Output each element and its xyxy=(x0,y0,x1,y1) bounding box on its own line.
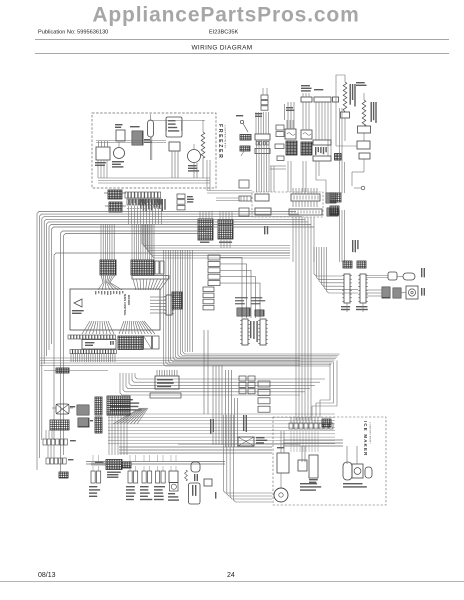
tall connector block A xyxy=(95,397,102,415)
small connector block D xyxy=(59,472,68,478)
heater R1 lead xyxy=(336,75,345,146)
freezer exit wires to junction xyxy=(207,190,252,192)
freezer harness connector block lower xyxy=(109,202,122,212)
relay K2 label xyxy=(314,89,323,90)
junction header J2 xyxy=(291,194,320,201)
thermal fuse box xyxy=(359,153,370,159)
svg-text:EI23BC35K: EI23BC35K xyxy=(209,30,238,36)
defrost limit switch xyxy=(169,142,180,151)
aux small box B xyxy=(277,156,284,161)
heater top labels xyxy=(356,82,365,83)
board right connector hatch xyxy=(172,292,182,309)
cluster drop wires xyxy=(287,161,289,192)
big harness connector right xyxy=(107,396,130,415)
wire fuse down xyxy=(363,159,365,172)
harness bends to water valve xyxy=(314,247,342,276)
defrost heater resistor R1 zigzag xyxy=(343,82,347,112)
compressor start relay box xyxy=(285,129,296,139)
cluster extra verticals xyxy=(286,120,288,129)
svg-text:WIRING DIAGRAM: WIRING DIAGRAM xyxy=(192,45,253,52)
wide connector strip B xyxy=(43,439,46,445)
water valve wires xyxy=(366,275,388,277)
heater R2 lead xyxy=(363,93,365,100)
staircase turns down to ice maker xyxy=(320,364,330,418)
connector grid CN2 xyxy=(218,220,233,239)
connector CN7 column xyxy=(261,95,268,99)
connector CN7 header lower xyxy=(255,149,270,154)
right harness down to valve strips xyxy=(339,210,341,262)
connector column CN11 xyxy=(203,287,214,292)
junction hatch right B xyxy=(327,208,338,216)
ice maker mold heater xyxy=(352,464,363,478)
wires below big connector xyxy=(108,415,110,455)
dispenser UI board box xyxy=(155,376,179,389)
svg-text:08/13: 08/13 xyxy=(38,572,56,579)
start relay text block xyxy=(286,141,297,155)
wires staircase to bottom bundle xyxy=(225,370,227,447)
connector column CN10 xyxy=(208,255,220,260)
freezer harness pin strip row2 xyxy=(127,199,129,205)
left harness corner bundle B xyxy=(61,231,207,472)
freezer defrost transformer xyxy=(132,131,143,145)
water tube heater hatch B xyxy=(357,261,366,268)
bottom harness dense connector xyxy=(106,460,122,470)
board connector block A xyxy=(100,260,116,275)
vertical label A xyxy=(210,419,211,434)
ice maker left module xyxy=(277,453,289,473)
board connector cells B2 xyxy=(155,261,159,274)
auger labels xyxy=(421,268,422,277)
svg-text:ICE MAKER: ICE MAKER xyxy=(363,421,368,456)
dispenser connector 2x3 xyxy=(239,376,246,381)
board pin marks top xyxy=(95,291,96,295)
board bottom dense block xyxy=(118,336,143,350)
svg-text:MAIN CONTROL: MAIN CONTROL xyxy=(123,294,127,316)
fan-out board bottom A xyxy=(82,321,90,334)
dispenser connector strip xyxy=(166,295,172,315)
right mid link wires xyxy=(336,145,357,147)
header rule upper xyxy=(35,39,449,41)
left harness corner bundle A extra xyxy=(49,225,311,351)
left bus verticals to strips xyxy=(45,430,47,439)
CN7 mid cells xyxy=(256,142,258,146)
power head strip labels xyxy=(250,321,251,338)
water valve body capsule xyxy=(403,273,415,280)
drain heater R2 zigzag xyxy=(362,100,366,126)
dispenser strip wires xyxy=(150,296,166,298)
wide connector strip C xyxy=(46,458,49,464)
sensor hatch block A xyxy=(330,193,341,202)
resistor squiggle bottom xyxy=(185,470,188,481)
evaporator thermistor symbol xyxy=(240,120,243,123)
freezer light lamp xyxy=(148,120,154,137)
board bottom aux boxes xyxy=(144,336,152,349)
condenser fan relay box xyxy=(357,141,370,149)
junction interface dashed box xyxy=(252,192,323,217)
UI board pins xyxy=(156,370,158,376)
bowtie fan A xyxy=(101,275,103,283)
ice maker internal wires xyxy=(290,431,292,452)
dispenser label block xyxy=(110,399,133,400)
main bus below board xyxy=(40,357,300,359)
connector grid CN1 xyxy=(198,219,213,240)
svg-text:FREEZER: FREEZER xyxy=(217,124,223,159)
evaporator fan motor EF xyxy=(188,150,201,163)
door switch S3 xyxy=(156,471,160,483)
wire bundle into board connector A xyxy=(100,224,102,260)
board connector block B xyxy=(131,260,154,275)
wide connector strip A xyxy=(50,420,69,430)
board connector bar B xyxy=(132,276,169,280)
dispenser bar xyxy=(150,393,181,398)
evaporator thermistor symbol 2 xyxy=(240,146,250,151)
junction area vertical label xyxy=(264,226,265,234)
harness staircase lower band xyxy=(120,373,300,395)
defrost heater element xyxy=(201,132,205,158)
freezer harness label columns xyxy=(140,199,141,208)
water valve connector strip B xyxy=(360,274,366,303)
ice maker motor capsule xyxy=(343,462,352,480)
freezer fan motor FF xyxy=(114,148,125,159)
heater R1 label xyxy=(350,84,351,105)
wire bundle into CN1 CN2 xyxy=(199,211,201,219)
wire drops from freezer connector xyxy=(128,206,130,224)
connector CN7 labels xyxy=(255,113,262,114)
svg-text:24: 24 xyxy=(227,572,235,579)
ice maker module A xyxy=(298,460,307,471)
connector hatch square A xyxy=(77,405,89,415)
run relay text block xyxy=(301,142,312,155)
center vertical harness below junction xyxy=(292,217,294,262)
water valve connector strip A xyxy=(344,274,350,303)
fan-out board bottom B xyxy=(119,321,124,334)
wires center to bottom xyxy=(212,365,214,445)
svg-text:AppliancePartsPros.com: AppliancePartsPros.com xyxy=(92,3,359,26)
capsule component mid bottom xyxy=(191,462,200,472)
power head strip A xyxy=(242,319,248,345)
dispenser connector column right xyxy=(258,381,270,387)
plug connector with cross xyxy=(56,404,69,414)
header rule lower xyxy=(35,53,449,55)
freezer harness pin strip row1 xyxy=(125,192,128,198)
svg-text:BOARD: BOARD xyxy=(127,295,131,305)
board bottom strip1 xyxy=(68,335,70,339)
ice maker top header xyxy=(289,423,293,429)
power head strip B xyxy=(260,319,266,345)
junction header J3 xyxy=(255,208,271,215)
sensor hatch block B xyxy=(330,206,339,215)
connector hatch square B xyxy=(78,418,89,427)
freezer compartment dashed enclosure xyxy=(92,113,216,188)
door switch S2 xyxy=(142,471,146,483)
light switch S4 xyxy=(169,471,178,483)
wire bundle K1 down xyxy=(287,102,289,129)
terminal X block xyxy=(335,154,342,161)
left column labels xyxy=(70,406,75,407)
board bottom relay box xyxy=(82,340,116,350)
bottom bus lines xyxy=(119,446,272,448)
compressor run relay box xyxy=(301,130,312,139)
buzzer symbol on board xyxy=(74,299,82,307)
board right harness bundle xyxy=(163,250,165,352)
main control board outline xyxy=(70,289,160,330)
freezer harness connector block upper xyxy=(108,190,122,199)
relay K2 header xyxy=(314,97,331,102)
overload text hatch xyxy=(315,147,316,155)
mid horizontal bus under grids xyxy=(142,224,290,246)
junction hatch right A xyxy=(326,193,336,203)
connector CN7 header xyxy=(255,134,270,140)
door switch S0 xyxy=(91,471,95,483)
relay K1 header xyxy=(301,97,312,102)
freezer thermistor xyxy=(116,130,125,141)
svg-text:COMPARTMENT: COMPARTMENT xyxy=(224,125,227,149)
power head label text xyxy=(235,297,248,298)
left harness corner bundle A xyxy=(37,212,296,471)
valve strip bottom labels xyxy=(341,306,350,307)
wire bundle K2 down xyxy=(315,102,317,140)
defrost termination thermostat block xyxy=(166,117,182,137)
ice maker thermostat capsule xyxy=(365,467,372,478)
freezer harness dashed mark row xyxy=(127,208,163,210)
compressor motor circle xyxy=(274,488,288,502)
overload long box upper xyxy=(313,140,331,145)
terminal circle xyxy=(361,186,365,190)
junction header J2 pin ticks xyxy=(292,201,294,207)
freezer connector J6 xyxy=(96,147,110,160)
aux connector with cross bottom xyxy=(238,437,254,446)
ice maker hatch top xyxy=(322,419,331,427)
door switch S1 xyxy=(128,471,132,483)
board bottom strip2 xyxy=(70,350,72,354)
tall connector block B xyxy=(95,417,102,433)
start capacitor pair xyxy=(276,125,284,130)
wire bundle CN7 down xyxy=(256,140,258,192)
power head hatch A xyxy=(237,308,250,316)
auger wires xyxy=(366,289,382,291)
aux box right of K2 xyxy=(333,97,339,102)
small box bottom mid xyxy=(204,479,212,486)
left harness L wire xyxy=(54,253,290,440)
freezer internal wiring xyxy=(96,140,166,142)
junction header J1 xyxy=(255,194,269,201)
ice maker dashed enclosure xyxy=(273,417,386,505)
auger heater hatch A xyxy=(382,287,390,298)
ice maker labels bottom xyxy=(300,483,317,484)
auger heater hatch B xyxy=(393,288,401,298)
freezer harness resistor stack xyxy=(177,194,185,199)
svg-text:COMPARTMENT: COMPARTMENT xyxy=(369,422,372,444)
vertical label B xyxy=(243,415,244,431)
mid-left harness label xyxy=(56,368,69,373)
door switch symbol A xyxy=(239,180,249,188)
labels top relay K1 xyxy=(301,85,310,86)
switch row wires xyxy=(86,461,225,463)
heater R2 label xyxy=(371,102,372,122)
labels above relay xyxy=(286,107,293,108)
overload long box lower xyxy=(313,156,331,161)
CN10 exit wires xyxy=(220,258,242,319)
harness label right side xyxy=(352,240,353,252)
junction header J4 xyxy=(289,209,322,215)
svg-text:Publication No: 5995636130: Publication No: 5995636130 xyxy=(38,30,108,36)
dispenser fan diagonals xyxy=(113,408,140,424)
door switch symbol C xyxy=(239,208,249,216)
fan B into board xyxy=(133,279,136,290)
water valve solenoid capsule xyxy=(388,272,397,280)
harness down to icemaker xyxy=(295,262,297,420)
ice maker module B xyxy=(309,455,318,478)
tall rounded component xyxy=(189,483,201,504)
dispenser bus staircase xyxy=(108,413,335,415)
auger motor box xyxy=(406,286,418,299)
wire drops below board strips xyxy=(70,354,72,362)
water tube heater hatch A xyxy=(343,261,352,268)
power head hatch B xyxy=(255,310,264,316)
door switch symbol B xyxy=(239,196,251,201)
footer rule xyxy=(0,581,464,583)
aux small box A xyxy=(275,144,284,149)
harness staircase east xyxy=(164,352,331,366)
wire bundle into board connector B xyxy=(131,224,133,260)
bottom harness bundle to compressor xyxy=(224,415,273,493)
wire CN7 column to header xyxy=(255,112,257,134)
